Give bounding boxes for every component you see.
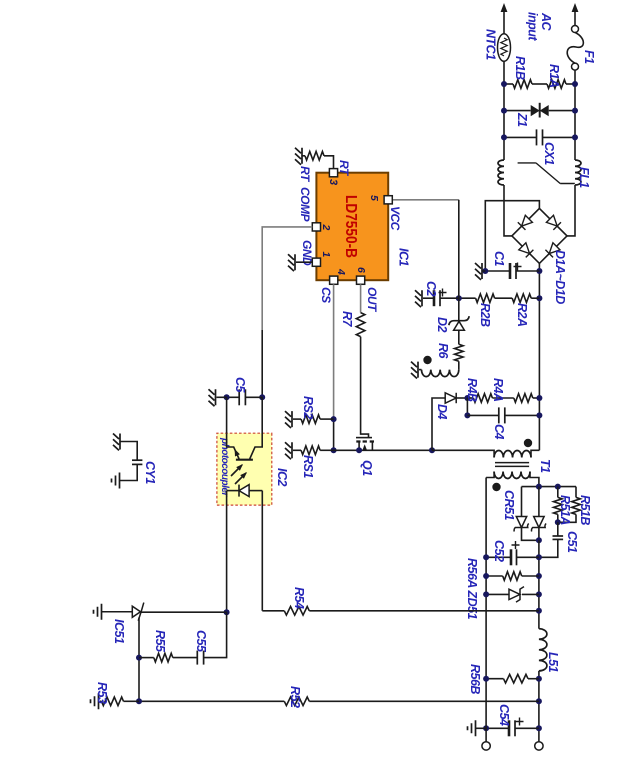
- svg-text:3: 3: [327, 179, 339, 185]
- svg-text:D1A~D1D: D1A~D1D: [553, 250, 567, 304]
- ground C1: [483, 270, 485, 272]
- rectifier CR51 diode upper: [538, 487, 540, 517]
- output terminal return: [482, 742, 490, 750]
- pin 6 OUT: [357, 276, 365, 284]
- svg-text:COMP: COMP: [298, 187, 312, 222]
- node R4A top: [536, 395, 542, 401]
- pin 2 COMP: [312, 223, 320, 231]
- wire emitter side: [226, 397, 228, 433]
- svg-text:C2: C2: [424, 281, 438, 297]
- output plus rail: [538, 540, 540, 628]
- ground CY1 primary: [113, 434, 120, 451]
- wire FL1 to bridge bottom: [504, 185, 512, 236]
- svg-text:C52: C52: [492, 540, 506, 562]
- node R1 bottom: [501, 81, 507, 87]
- ground RS2: [285, 411, 292, 428]
- inductor L51: [539, 629, 547, 671]
- ground C5: [209, 389, 216, 406]
- wire AC line N (NTC side) with arrow: [501, 3, 508, 12]
- diode D2: [458, 298, 460, 320]
- svg-text:VCC: VCC: [388, 206, 402, 231]
- transformer T1 secondary winding: [494, 472, 530, 479]
- svg-text:D2: D2: [435, 317, 449, 333]
- resistor R6: [455, 344, 464, 361]
- svg-text:R51B: R51B: [578, 495, 592, 525]
- svg-text:R2B: R2B: [478, 303, 492, 327]
- node R1 top: [572, 81, 578, 87]
- svg-text:R2A: R2A: [515, 303, 529, 327]
- node Z1 bottom: [501, 108, 507, 114]
- node C52 bottom: [483, 554, 489, 560]
- capacitor C54: [515, 727, 539, 729]
- svg-text:OUT: OUT: [365, 287, 379, 313]
- resistor R51A: [557, 487, 559, 498]
- svg-text:CY1: CY1: [143, 461, 157, 484]
- node C5 bottom: [224, 394, 230, 400]
- resistor R1A: [566, 83, 575, 85]
- fuse F1: [572, 26, 579, 33]
- wire bridge plus to HV rail: [538, 263, 540, 450]
- primary polarity dot: [524, 439, 532, 447]
- node CX1 bottom: [501, 134, 507, 140]
- transformer T1 primary winding: [531, 450, 539, 457]
- svg-text:R51A: R51A: [558, 495, 572, 525]
- resistor RT: [324, 156, 334, 169]
- svg-text:Z1: Z1: [515, 112, 529, 127]
- svg-text:FL1: FL1: [577, 167, 591, 188]
- svg-text:IC1: IC1: [397, 248, 411, 267]
- svg-text:IC51: IC51: [112, 619, 126, 644]
- svg-text:5: 5: [368, 195, 380, 201]
- resistor R56A: [522, 575, 539, 577]
- svg-text:D4: D4: [435, 404, 449, 420]
- svg-text:R1B: R1B: [513, 56, 527, 80]
- svg-text:NTC1: NTC1: [484, 29, 498, 60]
- FL1 core: [518, 163, 575, 184]
- wire bridge minus rail: [485, 201, 539, 271]
- node R56B bottom: [483, 676, 489, 682]
- capacitor CX1: [543, 136, 576, 138]
- VCC node and capacitor C2: [456, 295, 462, 301]
- node C54 bottom: [483, 725, 489, 731]
- photocoupler LED: [249, 490, 262, 492]
- svg-text:C54: C54: [497, 704, 511, 726]
- resistor R7: [356, 313, 365, 337]
- ground R53 earth: [91, 693, 99, 709]
- resistor R2B: [476, 294, 495, 303]
- node C1 minus: [482, 268, 488, 274]
- ground aux winding: [411, 362, 418, 379]
- clamp wire to D4: [429, 447, 435, 453]
- aux winding polarity dot: [423, 356, 431, 364]
- bridge diode bottom-right: [519, 243, 534, 258]
- svg-text:CS: CS: [319, 287, 333, 303]
- svg-text:R6: R6: [436, 343, 450, 360]
- capacitor C52: [517, 556, 539, 558]
- resistor R53: [124, 700, 140, 702]
- node RS1 / Q1 source: [331, 447, 337, 453]
- node RS2: [331, 416, 337, 422]
- node ZD51 bottom: [483, 591, 489, 597]
- schematic drawn in landscape, rotated 90deg clockwise: [91, 3, 597, 750]
- svg-text:R1A: R1A: [547, 64, 561, 88]
- node D4 cathode: [464, 395, 470, 401]
- svg-text:4: 4: [335, 268, 347, 275]
- resistor R2A: [512, 294, 531, 303]
- svg-text:Q1: Q1: [360, 460, 374, 476]
- svg-text:C4: C4: [492, 424, 506, 440]
- svg-text:C5: C5: [233, 377, 247, 394]
- bridge diode bottom-left: [518, 215, 533, 230]
- svg-text:R4A: R4A: [491, 378, 505, 402]
- node R56A top: [536, 573, 542, 579]
- svg-text:6: 6: [355, 267, 367, 273]
- thermistor NTC1: [498, 34, 511, 62]
- capacitor CY1: [121, 442, 138, 461]
- resistor R54: [262, 610, 284, 612]
- svg-text:C51: C51: [565, 531, 579, 553]
- svg-text:1: 1: [320, 252, 332, 258]
- pin 4 CS: [330, 276, 338, 284]
- MOSFET Q1: [356, 437, 372, 439]
- ground C2: [415, 290, 422, 307]
- resistor R1B: [513, 80, 532, 89]
- node secondary top: [536, 484, 542, 490]
- bridge diode top-right: [545, 243, 560, 258]
- output return rail: [485, 478, 487, 743]
- wire LED anode to R54: [261, 491, 263, 611]
- svg-text:C1: C1: [492, 251, 506, 267]
- ground IC51 earth: [94, 604, 102, 620]
- svg-text:2: 2: [320, 224, 332, 231]
- svg-text:C55: C55: [194, 630, 208, 653]
- node ref / R55: [136, 655, 142, 661]
- svg-text:AC: AC: [539, 12, 553, 32]
- output terminal plus: [535, 742, 543, 750]
- pin 5 VCC: [384, 196, 392, 204]
- svg-text:T1: T1: [538, 459, 552, 473]
- wire CS: [333, 284, 335, 419]
- capacitor C51: [557, 522, 559, 536]
- svg-text:L51: L51: [546, 652, 560, 673]
- capacitor C5: [259, 394, 265, 400]
- svg-text:input: input: [526, 12, 540, 41]
- bridge diode top-left: [546, 215, 561, 230]
- wire FL1 to bridge top: [567, 185, 575, 236]
- wire COMP: [262, 227, 312, 330]
- node CR51 cathode: [536, 537, 542, 543]
- node R54 tap: [536, 608, 542, 614]
- svg-text:CR51: CR51: [502, 490, 516, 521]
- T1 core: [495, 463, 529, 467]
- wire VCC pin5: [392, 199, 459, 201]
- TVS Z1 bidirectional: [549, 110, 575, 112]
- ground CY1 secondary earth: [112, 473, 120, 489]
- wire AC line L (fuse side) with arrow: [572, 3, 579, 12]
- svg-text:LD7550-B: LD7550-B: [342, 195, 359, 258]
- svg-text:R54: R54: [292, 587, 306, 609]
- node C52 top: [536, 554, 542, 560]
- resistor R55: [139, 657, 154, 659]
- ground GND pin: [296, 261, 312, 263]
- node IC51 cathode: [224, 609, 230, 615]
- diode D4: [445, 393, 456, 403]
- FL1 bottom winding: [498, 160, 504, 185]
- capacitor C55: [203, 651, 205, 665]
- svg-text:IC2: IC2: [275, 468, 289, 487]
- ground RT: [295, 148, 302, 165]
- photocoupler IC2 box: [217, 433, 272, 505]
- resistor RS1: [320, 449, 334, 451]
- secondary polarity dot: [492, 483, 500, 491]
- svg-text:R52: R52: [288, 686, 302, 708]
- earth ground C54: [476, 727, 486, 729]
- shunt regulator IC51: [141, 611, 227, 613]
- resistors R2A R2B chain: [536, 295, 542, 301]
- IC U1 LD7550-B body: [316, 173, 388, 281]
- wire LED cathode to IC51: [226, 491, 228, 613]
- pin 3 RT: [329, 169, 337, 177]
- svg-text:R53: R53: [95, 682, 109, 704]
- node R52 tap: [536, 698, 542, 704]
- bridge rectifier D1A~D1D diamond: [512, 208, 567, 263]
- node divider: [136, 698, 142, 704]
- node R56B top: [536, 676, 542, 682]
- svg-text:RS1: RS1: [301, 455, 315, 478]
- svg-text:R7: R7: [340, 311, 354, 328]
- rectifier CR51 diode lower: [521, 487, 523, 517]
- node C54 top: [536, 725, 542, 731]
- wire R7 to Q1 gate: [361, 337, 369, 438]
- resistor RS2: [320, 418, 334, 420]
- capacitor C1: [536, 268, 542, 274]
- CR51 anode line: [522, 486, 577, 488]
- node Z1 top: [572, 108, 578, 114]
- ground RS1: [285, 442, 292, 459]
- node R51 top: [555, 484, 561, 490]
- transformer aux winding: [422, 370, 459, 377]
- wire OUT to R7: [360, 284, 362, 312]
- wire IC51 ref: [138, 618, 140, 702]
- svg-text:RS2: RS2: [301, 396, 315, 419]
- node ZD51 top: [536, 591, 542, 597]
- photocoupler transistor: [250, 397, 263, 459]
- pin 1 GND: [312, 258, 320, 266]
- svg-text:R55: R55: [153, 630, 167, 653]
- resistor R4B: [467, 397, 473, 399]
- capacitor C4: [466, 398, 468, 415]
- common-mode choke FL1 top winding: [575, 160, 581, 185]
- svg-text:RT: RT: [298, 166, 312, 183]
- svg-text:CX1: CX1: [542, 142, 556, 165]
- zener ZD51: [522, 593, 539, 595]
- node R56A bottom: [483, 573, 489, 579]
- resistor R52: [309, 700, 539, 702]
- node CX1 top: [572, 134, 578, 140]
- svg-text:photocoupler: photocoupler: [219, 437, 230, 497]
- resistor R4A: [514, 394, 533, 403]
- svg-text:RT: RT: [337, 160, 351, 177]
- light arrows: [231, 465, 246, 484]
- resistor R56B: [528, 678, 539, 680]
- resistor R51B: [575, 487, 577, 498]
- svg-text:F1: F1: [582, 50, 596, 64]
- svg-text:R56B: R56B: [468, 664, 482, 694]
